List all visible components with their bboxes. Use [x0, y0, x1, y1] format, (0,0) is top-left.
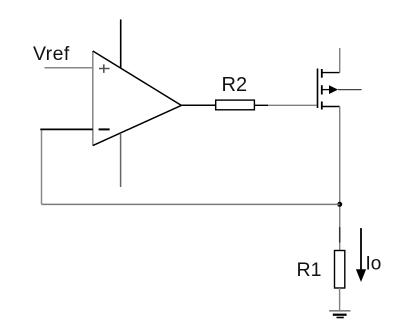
- node junction: [337, 202, 342, 207]
- wire: [45, 67, 93, 69]
- wire: [254, 104, 316, 106]
- svg-text:Vref: Vref: [33, 43, 70, 65]
- wire: [40, 128, 93, 130]
- transistor Q1: [318, 69, 362, 110]
- wire: [181, 104, 215, 106]
- wire: [339, 288, 341, 311]
- wire: [42, 129, 340, 204]
- resistor R2: [216, 100, 255, 110]
- current arrow Io: [356, 228, 366, 282]
- wire: [339, 48, 341, 73]
- op-amp negative supply pin: [120, 133, 122, 187]
- svg-text:R1: R1: [297, 259, 322, 281]
- op-amp U1: [93, 51, 182, 146]
- wire: [339, 107, 341, 251]
- svg-text:Io: Io: [366, 253, 382, 274]
- op-amp positive supply pin: [120, 19, 122, 68]
- svg-text:R2: R2: [222, 74, 248, 96]
- ground: [329, 311, 350, 318]
- resistor R1: [335, 251, 345, 289]
